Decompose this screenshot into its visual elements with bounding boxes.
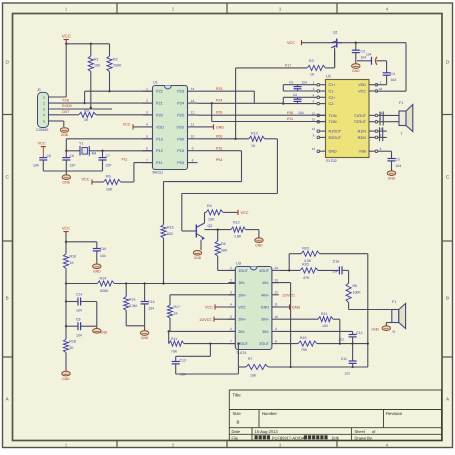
svg-text:C11: C11 <box>341 357 347 361</box>
svg-text:104: 104 <box>332 269 338 273</box>
svg-text:C2-: C2- <box>329 102 336 106</box>
svg-text:C13: C13 <box>180 358 186 362</box>
svg-text:7: 7 <box>146 158 148 162</box>
svg-text:B: B <box>6 296 9 301</box>
svg-text:C10: C10 <box>100 247 106 251</box>
svg-text:RXD0: RXD0 <box>62 104 72 108</box>
svg-text:VCC: VCC <box>62 34 71 39</box>
svg-text:T1IN: T1IN <box>329 114 337 118</box>
svg-text:104: 104 <box>302 80 308 84</box>
svg-text:C6: C6 <box>293 93 297 97</box>
svg-text:1/2VCC: 1/2VCC <box>199 318 212 322</box>
svg-text:3: 3 <box>43 107 45 111</box>
svg-text:10: 10 <box>312 118 316 122</box>
svg-text:VCC: VCC <box>38 142 46 146</box>
svg-text:3: 3 <box>146 111 148 115</box>
svg-text:4: 4 <box>313 93 315 97</box>
svg-text:R21: R21 <box>321 312 327 316</box>
svg-text:GND: GND <box>371 328 379 332</box>
svg-text:R19: R19 <box>300 336 306 340</box>
svg-text:1K: 1K <box>69 346 74 350</box>
svg-text:5: 5 <box>43 119 45 123</box>
svg-text:GND: GND <box>93 270 101 274</box>
svg-text:VCC: VCC <box>358 90 366 94</box>
svg-text:4.3K: 4.3K <box>304 259 312 263</box>
svg-text:C1+: C1+ <box>329 83 336 87</box>
svg-text:104: 104 <box>366 52 372 56</box>
svg-text:2: 2 <box>43 102 45 106</box>
svg-text:GND: GND <box>255 243 263 247</box>
svg-text:22P: 22P <box>70 164 77 168</box>
svg-text:P12: P12 <box>156 149 163 153</box>
svg-text:14: 14 <box>191 87 195 91</box>
svg-text:11: 11 <box>191 123 195 127</box>
svg-text:47K: 47K <box>303 276 310 280</box>
svg-text:GND: GND <box>352 69 360 73</box>
svg-text:1: 1 <box>146 87 148 91</box>
svg-text:SY232: SY232 <box>326 159 337 163</box>
svg-text:1K: 1K <box>310 73 315 77</box>
svg-text:C9: C9 <box>76 317 81 321</box>
svg-text:T2OUT: T2OUT <box>354 120 367 124</box>
svg-text:GND: GND <box>194 256 202 260</box>
svg-text:P10: P10 <box>177 149 184 153</box>
svg-text:12: 12 <box>312 127 316 131</box>
svg-text:P13: P13 <box>156 137 163 141</box>
svg-text:COM45: COM45 <box>36 128 48 132</box>
svg-text:R7: R7 <box>248 357 253 361</box>
svg-text:7: 7 <box>230 339 232 343</box>
svg-text:6: 6 <box>146 146 148 150</box>
svg-text:6: 6 <box>380 147 382 151</box>
svg-text:R2: R2 <box>113 58 118 62</box>
svg-text:P00: P00 <box>216 134 222 138</box>
svg-text:4: 4 <box>230 303 232 307</box>
svg-text:J1: J1 <box>37 88 41 92</box>
svg-text:R14: R14 <box>100 276 107 280</box>
svg-text:2OUT: 2OUT <box>238 342 249 346</box>
svg-text:8: 8 <box>192 158 194 162</box>
svg-text:R13: R13 <box>251 132 258 136</box>
svg-text:C12: C12 <box>356 331 362 335</box>
svg-text:104: 104 <box>298 111 304 115</box>
svg-text:P00: P00 <box>177 137 184 141</box>
svg-text:100K: 100K <box>353 291 362 295</box>
svg-text:15: 15 <box>312 147 316 151</box>
svg-text:R17: R17 <box>174 305 180 309</box>
svg-text:VCC: VCC <box>62 226 70 230</box>
svg-text:R20: R20 <box>302 262 309 266</box>
svg-text:R11: R11 <box>171 337 177 341</box>
svg-text:C7: C7 <box>106 154 110 158</box>
svg-text:P30: P30 <box>287 111 293 115</box>
svg-text:R8: R8 <box>353 284 358 288</box>
svg-text:103: 103 <box>322 324 328 328</box>
svg-text:2: 2 <box>146 99 148 103</box>
svg-text:U1: U1 <box>153 81 158 85</box>
svg-text:3: 3 <box>230 291 232 295</box>
svg-text:3IN+: 3IN+ <box>261 318 269 322</box>
svg-text:P54: P54 <box>177 161 184 165</box>
svg-text:3: 3 <box>313 87 315 91</box>
svg-text:GND: GND <box>141 336 149 340</box>
svg-text:U2: U2 <box>326 75 331 79</box>
svg-text:1IN+: 1IN+ <box>238 293 246 297</box>
svg-text:.Ddb: .Ddb <box>331 435 340 440</box>
svg-text:Sheet: Sheet <box>355 429 366 434</box>
svg-text:1: 1 <box>313 81 315 85</box>
svg-text:C5: C5 <box>396 157 400 161</box>
svg-text:1K: 1K <box>251 144 256 148</box>
svg-text:10K: 10K <box>106 188 113 192</box>
svg-text:4: 4 <box>43 113 45 117</box>
svg-text:T2IN: T2IN <box>329 120 337 124</box>
svg-text:620K: 620K <box>100 289 109 293</box>
svg-text:11: 11 <box>312 111 315 115</box>
svg-text:VCC: VCC <box>205 306 213 310</box>
svg-text:R15: R15 <box>167 225 174 229</box>
svg-text:R23: R23 <box>302 246 309 250</box>
svg-text:P24: P24 <box>216 99 222 103</box>
svg-text:8: 8 <box>275 339 277 343</box>
svg-text:R2IN: R2IN <box>358 136 367 140</box>
svg-text:C6: C6 <box>70 154 74 158</box>
svg-text:14: 14 <box>274 266 278 270</box>
svg-text:C14: C14 <box>76 293 82 297</box>
svg-text:GND: GND <box>329 150 338 154</box>
svg-text:5: 5 <box>230 315 232 319</box>
svg-text:1: 1 <box>230 266 232 270</box>
svg-text:B: B <box>237 420 240 425</box>
svg-text:PCF8591T-AD/DA: PCF8591T-AD/DA <box>272 435 305 440</box>
svg-text:C15: C15 <box>148 300 154 304</box>
svg-text:4IN-: 4IN- <box>262 281 270 285</box>
svg-text:Q1: Q1 <box>333 31 338 35</box>
svg-text:Date: Date <box>232 429 241 434</box>
svg-text:R1OUT: R1OUT <box>329 130 342 134</box>
svg-text:1K: 1K <box>70 261 75 265</box>
svg-text:TL074: TL074 <box>236 351 246 355</box>
svg-text:B: B <box>446 296 449 301</box>
svg-text:GND: GND <box>216 125 224 129</box>
svg-text:9: 9 <box>275 327 277 331</box>
svg-text:10K: 10K <box>94 64 101 68</box>
svg-text:C16: C16 <box>333 259 339 263</box>
svg-text:Y1: Y1 <box>79 141 83 145</box>
svg-text:2: 2 <box>230 278 232 282</box>
svg-text:C3: C3 <box>361 49 365 53</box>
svg-text:P23: P23 <box>177 90 184 94</box>
svg-text:Title: Title <box>233 393 242 398</box>
svg-text:C8: C8 <box>47 154 51 158</box>
svg-text:12: 12 <box>274 291 278 295</box>
svg-text:13: 13 <box>191 99 195 103</box>
svg-text:P24: P24 <box>177 102 184 106</box>
svg-text:U3: U3 <box>236 262 241 266</box>
svg-text:4IN+: 4IN+ <box>261 293 269 297</box>
svg-text:R6: R6 <box>221 242 226 246</box>
svg-text:Revision: Revision <box>386 411 403 416</box>
svg-text:P11: P11 <box>156 161 162 165</box>
svg-text:2IN-: 2IN- <box>238 330 246 334</box>
svg-text:4M: 4M <box>92 152 97 156</box>
svg-text:R5: R5 <box>106 175 111 179</box>
svg-text:89C51: 89C51 <box>153 171 164 175</box>
svg-text:VDD: VDD <box>156 125 164 129</box>
svg-text:1K: 1K <box>84 118 89 122</box>
svg-text:22P: 22P <box>106 164 113 168</box>
svg-text:R18: R18 <box>69 340 76 344</box>
svg-text:10K: 10K <box>208 217 215 221</box>
svg-text:104: 104 <box>100 254 106 258</box>
svg-text:R10: R10 <box>70 254 77 258</box>
svg-text:P25: P25 <box>177 114 184 118</box>
svg-text:R2OUT: R2OUT <box>329 136 342 140</box>
svg-text:104: 104 <box>148 307 154 311</box>
svg-text:3OUT: 3OUT <box>259 342 270 346</box>
svg-text:VCC: VCC <box>238 306 246 310</box>
svg-text:P11: P11 <box>122 158 128 162</box>
svg-text:P31: P31 <box>287 117 293 121</box>
svg-text:R4: R4 <box>207 204 212 208</box>
svg-text:3IN-: 3IN- <box>262 330 270 334</box>
svg-text:P10: P10 <box>216 146 222 150</box>
svg-text:P22: P22 <box>156 90 163 94</box>
svg-text:2: 2 <box>380 81 382 85</box>
svg-text:104: 104 <box>396 164 402 168</box>
svg-text:2IN+: 2IN+ <box>238 318 246 322</box>
svg-text:102: 102 <box>338 338 344 342</box>
svg-text:C2+: C2+ <box>329 96 336 100</box>
svg-text:10: 10 <box>191 135 195 139</box>
svg-text:GND: GND <box>388 176 396 180</box>
svg-text:1OUT: 1OUT <box>238 269 249 273</box>
svg-text:GND: GND <box>61 133 69 137</box>
svg-text:602: 602 <box>167 232 173 236</box>
svg-text:VSB: VSB <box>359 150 367 154</box>
svg-text:R12: R12 <box>233 220 240 224</box>
svg-text:VCC: VCC <box>81 177 89 181</box>
svg-text:16: 16 <box>379 87 383 91</box>
svg-text:F1: F1 <box>392 300 396 304</box>
svg-text:GND: GND <box>261 306 270 310</box>
svg-text:9: 9 <box>313 133 315 137</box>
svg-text:104: 104 <box>76 309 82 313</box>
svg-text:F1: F1 <box>399 101 403 105</box>
svg-text:75K: 75K <box>301 348 308 352</box>
svg-text:102: 102 <box>344 371 350 375</box>
svg-text:C1-: C1- <box>329 90 336 94</box>
svg-text:Size: Size <box>233 411 242 416</box>
svg-text:OUT: OUT <box>62 110 70 114</box>
svg-text:VCC: VCC <box>123 122 131 126</box>
svg-text:GND: GND <box>63 180 71 184</box>
svg-text:GND: GND <box>292 306 301 310</box>
svg-text:GND: GND <box>62 377 70 381</box>
svg-text:R9: R9 <box>84 109 89 113</box>
svg-text:200K: 200K <box>113 64 122 68</box>
svg-text:12: 12 <box>191 111 195 115</box>
svg-text:VSS: VSS <box>176 125 184 129</box>
svg-text:VCC: VCC <box>241 211 249 215</box>
svg-text:13: 13 <box>274 278 278 282</box>
svg-text:P23: P23 <box>216 87 222 91</box>
svg-text:R3: R3 <box>309 59 314 63</box>
svg-text:104: 104 <box>391 78 397 82</box>
svg-text:P17: P17 <box>285 63 291 67</box>
svg-text:1: 1 <box>43 95 45 99</box>
svg-text:104: 104 <box>76 333 82 337</box>
svg-text:T1OUT: T1OUT <box>354 114 367 118</box>
svg-text:R1: R1 <box>94 58 99 62</box>
svg-text:5: 5 <box>313 100 315 104</box>
svg-text:P54: P54 <box>216 158 222 162</box>
svg-text:50K: 50K <box>221 249 228 253</box>
svg-text:1/2VCC: 1/2VCC <box>282 293 295 297</box>
svg-text:4: 4 <box>146 123 148 127</box>
svg-text:C4: C4 <box>391 72 395 76</box>
svg-text:1IN-: 1IN- <box>238 281 246 285</box>
svg-text:Number: Number <box>262 411 277 416</box>
svg-text:4OUT: 4OUT <box>259 269 270 273</box>
svg-text:0.3M: 0.3M <box>129 304 137 308</box>
svg-text:75K: 75K <box>171 350 178 354</box>
svg-text:R: R <box>393 330 396 334</box>
svg-text:104: 104 <box>33 164 39 168</box>
svg-text:5: 5 <box>146 135 148 139</box>
svg-text:6: 6 <box>230 327 232 331</box>
svg-text:GND: GND <box>100 330 108 334</box>
svg-text:R16: R16 <box>129 297 135 301</box>
svg-text:VDD: VDD <box>358 83 366 87</box>
svg-text:P21: P21 <box>156 102 163 106</box>
svg-text:1K: 1K <box>174 312 179 316</box>
svg-text:P20: P20 <box>156 114 163 118</box>
svg-text:File: File <box>232 435 239 440</box>
svg-text:15-Aug-2013: 15-Aug-2013 <box>255 429 279 434</box>
svg-text:C5: C5 <box>289 80 293 84</box>
svg-text:TXD: TXD <box>62 99 70 103</box>
svg-text:9: 9 <box>192 146 194 150</box>
svg-text:10K: 10K <box>250 374 257 378</box>
svg-text:P25: P25 <box>216 111 222 115</box>
svg-text:14: 14 <box>379 111 383 115</box>
svg-text:VCC: VCC <box>287 41 295 45</box>
svg-text:Q2: Q2 <box>208 224 213 228</box>
svg-text:Drawn By:: Drawn By: <box>355 435 373 440</box>
svg-text:1.8K: 1.8K <box>234 234 242 238</box>
svg-text:R1IN: R1IN <box>358 130 367 134</box>
svg-text:10: 10 <box>274 315 278 319</box>
svg-text:11: 11 <box>274 303 278 307</box>
